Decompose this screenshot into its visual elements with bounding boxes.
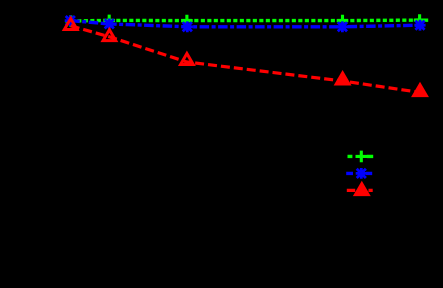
green line clipped at right border [425, 19, 428, 22]
blue series line [70, 21, 420, 27]
legend red triangle [355, 184, 368, 195]
green series line [71, 18, 420, 22]
legend blue asterisk [356, 168, 367, 179]
legend red sample [347, 189, 373, 192]
green plus markers [65, 14, 425, 26]
legend green plus [356, 151, 368, 163]
blue asterisk markers [65, 15, 426, 32]
red triangle markers [64, 19, 426, 96]
legend green sample [348, 155, 374, 158]
red series line [71, 26, 420, 93]
legend blue sample [346, 172, 372, 175]
